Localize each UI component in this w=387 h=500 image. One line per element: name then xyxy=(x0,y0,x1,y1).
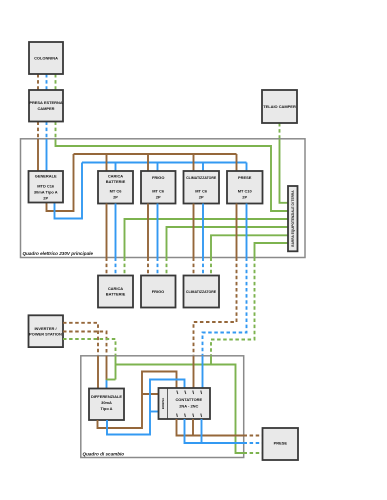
svg-text:2NA - 2NC: 2NA - 2NC xyxy=(179,403,198,408)
svg-text:FRIGO: FRIGO xyxy=(152,289,164,294)
wire PE to carica batterie load (green dashed) xyxy=(124,258,126,276)
svg-text:Quadro elettrico 230V principa: Quadro elettrico 230V principale xyxy=(23,251,94,256)
wire N bobina feed (blue) xyxy=(150,411,159,413)
wire PE prese circuit down to quadro di scambio (green dashed) xyxy=(211,258,255,356)
load CARICA BATTERIE xyxy=(98,276,133,308)
svg-text:PRESE: PRESE xyxy=(274,440,288,445)
wire N contattore NC output (blue) xyxy=(185,419,244,443)
svg-text:30mA Tipo A: 30mA Tipo A xyxy=(34,190,58,195)
svg-text:2P: 2P xyxy=(199,195,204,200)
wire N drop to frigo breaker (blue) xyxy=(157,163,159,172)
wire L presa esterna to quadro (brown dashed) xyxy=(37,122,39,140)
svg-text:CARICA: CARICA xyxy=(108,174,123,179)
box PRESA ESTERNA CAMPER xyxy=(29,90,63,122)
wire N mains to contattore (blue) xyxy=(202,356,204,388)
svg-text:PRESE: PRESE xyxy=(238,175,252,180)
wire PE telaio camper to quadro (green dashed) xyxy=(279,123,281,139)
wire L2 inverter to quadro di scambio (brown dashed) xyxy=(63,332,107,356)
wire N presa esterna to quadro (blue dashed) xyxy=(46,122,48,140)
wire N drop to carica batterie breaker (blue) xyxy=(115,163,117,172)
svg-text:MT C10: MT C10 xyxy=(238,189,253,194)
wire PE colonnina to presa esterna (green dashed) xyxy=(55,74,57,90)
svg-text:CLIMATIZZATORE: CLIMATIZZATORE xyxy=(186,290,217,294)
wire L contattore NC output (brown) xyxy=(177,419,244,436)
box INVERTER / POWER STATION xyxy=(29,315,64,347)
wire L prese breaker output (brown) xyxy=(236,204,238,258)
svg-text:CAMPER: CAMPER xyxy=(37,106,54,111)
wire PE bus in quadro di scambio (green) xyxy=(116,365,244,454)
wire N drop to climatizzatore breaker (blue) xyxy=(202,163,204,172)
svg-text:MT C6: MT C6 xyxy=(110,189,123,194)
wire L frigo breaker output (brown) xyxy=(147,204,149,258)
svg-text:Quadro di scambio: Quadro di scambio xyxy=(83,452,125,457)
contattore bottom pins xyxy=(177,414,202,418)
svg-text:30mA: 30mA xyxy=(101,400,112,405)
wire PE input to barra (green) xyxy=(56,139,289,211)
wire PE climatizzatore to barra (green) xyxy=(211,235,288,257)
wire N bus (blue) xyxy=(82,162,247,164)
wire N bonded segment to differenziale (blue) xyxy=(106,380,108,389)
breaker PRESE MT C10 xyxy=(227,171,263,204)
svg-text:POWER STATION: POWER STATION xyxy=(29,332,62,337)
svg-text:2P: 2P xyxy=(156,195,161,200)
wire L drop to frigo breaker (brown) xyxy=(147,154,149,171)
box COLONNINA xyxy=(29,42,63,74)
wire N colonnina to presa esterna (blue dashed) xyxy=(46,74,48,90)
svg-text:PRESA ESTERNA: PRESA ESTERNA xyxy=(29,100,62,105)
wire N quadro di scambio to prese (blue dashed) xyxy=(244,442,263,444)
svg-text:Tipo A: Tipo A xyxy=(100,406,112,411)
wire L bobina feed (brown) xyxy=(142,393,159,395)
svg-text:GENERALE: GENERALE xyxy=(35,174,57,179)
load CLIMATIZZATORE xyxy=(184,276,220,308)
wire PE frigo to barra (green) xyxy=(167,227,289,258)
wire N differenziale to contattore pin2 (blue) xyxy=(107,380,185,435)
svg-text:MTD C16: MTD C16 xyxy=(37,184,55,189)
wire L input to generale (brown) xyxy=(37,139,39,171)
wire L to carica batterie load (brown dashed) xyxy=(106,258,108,276)
wire L carica batterie breaker output (brown) xyxy=(106,204,108,258)
svg-text:TELAIO CAMPER: TELAIO CAMPER xyxy=(263,104,296,109)
wire L2 inverter segment (brown) xyxy=(106,356,108,380)
wire L1 inverter to quadro di scambio (brown dashed) xyxy=(63,323,98,356)
svg-text:DIFFERENZIALE: DIFFERENZIALE xyxy=(91,394,122,399)
wire L1 inverter to differenziale (brown) xyxy=(97,356,99,389)
panel Quadro di scambio xyxy=(81,356,244,458)
svg-text:INVERTER /: INVERTER / xyxy=(34,326,57,331)
wire L drop to climatizzatore breaker (brown) xyxy=(193,154,195,171)
wire L to climatizzatore load (brown dashed) xyxy=(193,258,195,276)
wire N prese breaker output (blue) xyxy=(246,204,248,258)
wire L quadro di scambio to prese (brown dashed) xyxy=(244,435,263,437)
wire L drop to carica batterie breaker (brown) xyxy=(106,154,108,171)
breaker CLIMATIZZATORE MT C6 xyxy=(184,171,220,204)
svg-text:CARICA: CARICA xyxy=(108,286,123,291)
svg-text:BARRA EQUIPOTENZIALE DI TERRA: BARRA EQUIPOTENZIALE DI TERRA xyxy=(291,190,295,247)
breaker FRIGO MT C6 xyxy=(141,171,176,204)
wire PE mains to green bus (green) xyxy=(210,356,212,365)
wire L contattore NA output (brown) xyxy=(192,419,194,436)
wire N prese circuit down to quadro di scambio (blue dashed) xyxy=(203,258,247,356)
svg-text:2P: 2P xyxy=(242,195,247,200)
svg-text:BATTERIE: BATTERIE xyxy=(106,292,126,297)
svg-text:CONTATTORE: CONTATTORE xyxy=(175,397,202,402)
wire PE inverter drop (green) xyxy=(115,356,117,380)
wire L climatizzatore breaker output (brown) xyxy=(193,204,195,258)
wire L to frigo load (brown dashed) xyxy=(147,258,149,276)
svg-text:2P: 2P xyxy=(113,195,118,200)
panel Quadro elettrico 230V principale xyxy=(21,139,306,258)
wire PE presa esterna to quadro (green dashed) xyxy=(55,122,57,140)
wire PE carica batterie to barra (green) xyxy=(125,219,289,258)
contattore top pins xyxy=(177,391,202,395)
svg-text:BATTERIE: BATTERIE xyxy=(106,179,126,184)
wire L bus (brown) xyxy=(74,153,237,155)
wire PE neutral bond jumper (green) xyxy=(107,379,116,381)
wire N to climatizzatore load (blue dashed) xyxy=(202,258,204,276)
wire PE inverter to quadro di scambio (green dashed) xyxy=(63,339,116,356)
wire L mains to contattore (brown) xyxy=(193,356,195,388)
contattore CONTATTORE 2NA-2NC with bobina xyxy=(159,388,211,419)
load PRESE xyxy=(263,428,299,460)
svg-text:BOBINA: BOBINA xyxy=(161,397,165,409)
wire PE quadro di scambio to prese (green dashed) xyxy=(244,452,263,454)
wire PE prese to barra (green) xyxy=(255,243,289,258)
load FRIGO xyxy=(141,276,176,308)
wire L colonnina to presa esterna (brown dashed) xyxy=(37,74,39,90)
svg-text:2P: 2P xyxy=(43,196,48,201)
wire N climatizzatore breaker output (blue) xyxy=(202,204,204,258)
wire N to frigo load (blue dashed) xyxy=(157,258,159,276)
svg-text:FRIGO: FRIGO xyxy=(152,175,164,180)
wire L drop to prese breaker (brown) xyxy=(236,154,238,171)
wire PE to frigo load (green dashed) xyxy=(166,258,168,276)
wire N input to generale (blue) xyxy=(46,139,48,171)
wire N carica batterie breaker output (blue) xyxy=(115,204,117,258)
wire N drop to prese breaker (blue) xyxy=(246,163,248,172)
wire L prese circuit down to quadro di scambio (brown dashed) xyxy=(194,258,237,356)
svg-text:MT C6: MT C6 xyxy=(152,189,165,194)
wire L generale output riser (brown) xyxy=(47,154,74,211)
wire N generale output riser (blue) xyxy=(55,163,83,219)
svg-text:MT C6: MT C6 xyxy=(195,189,208,194)
breaker DIFFERENZIALE 30mA Tipo A xyxy=(89,389,124,421)
wire N to carica batterie load (blue dashed) xyxy=(115,258,117,276)
wire N contattore NA output (blue) xyxy=(201,419,203,443)
svg-text:CLIMATIZZATORE: CLIMATIZZATORE xyxy=(186,176,217,180)
wire N frigo breaker output (blue) xyxy=(157,204,159,258)
barra equipotenziale di terra xyxy=(288,186,298,251)
box TELAIO CAMPER xyxy=(262,90,297,123)
wire PE to climatizzatore load (green dashed) xyxy=(210,258,212,276)
wire PE telaio to barra inside panel (green) xyxy=(280,139,289,203)
breaker CARICA BATTERIE MT C6 xyxy=(98,171,133,204)
svg-text:COLONNINA: COLONNINA xyxy=(34,56,58,61)
breaker GENERALE MTD C16 xyxy=(29,171,64,203)
wire L differenziale to contattore pin1 (brown) xyxy=(98,372,177,429)
